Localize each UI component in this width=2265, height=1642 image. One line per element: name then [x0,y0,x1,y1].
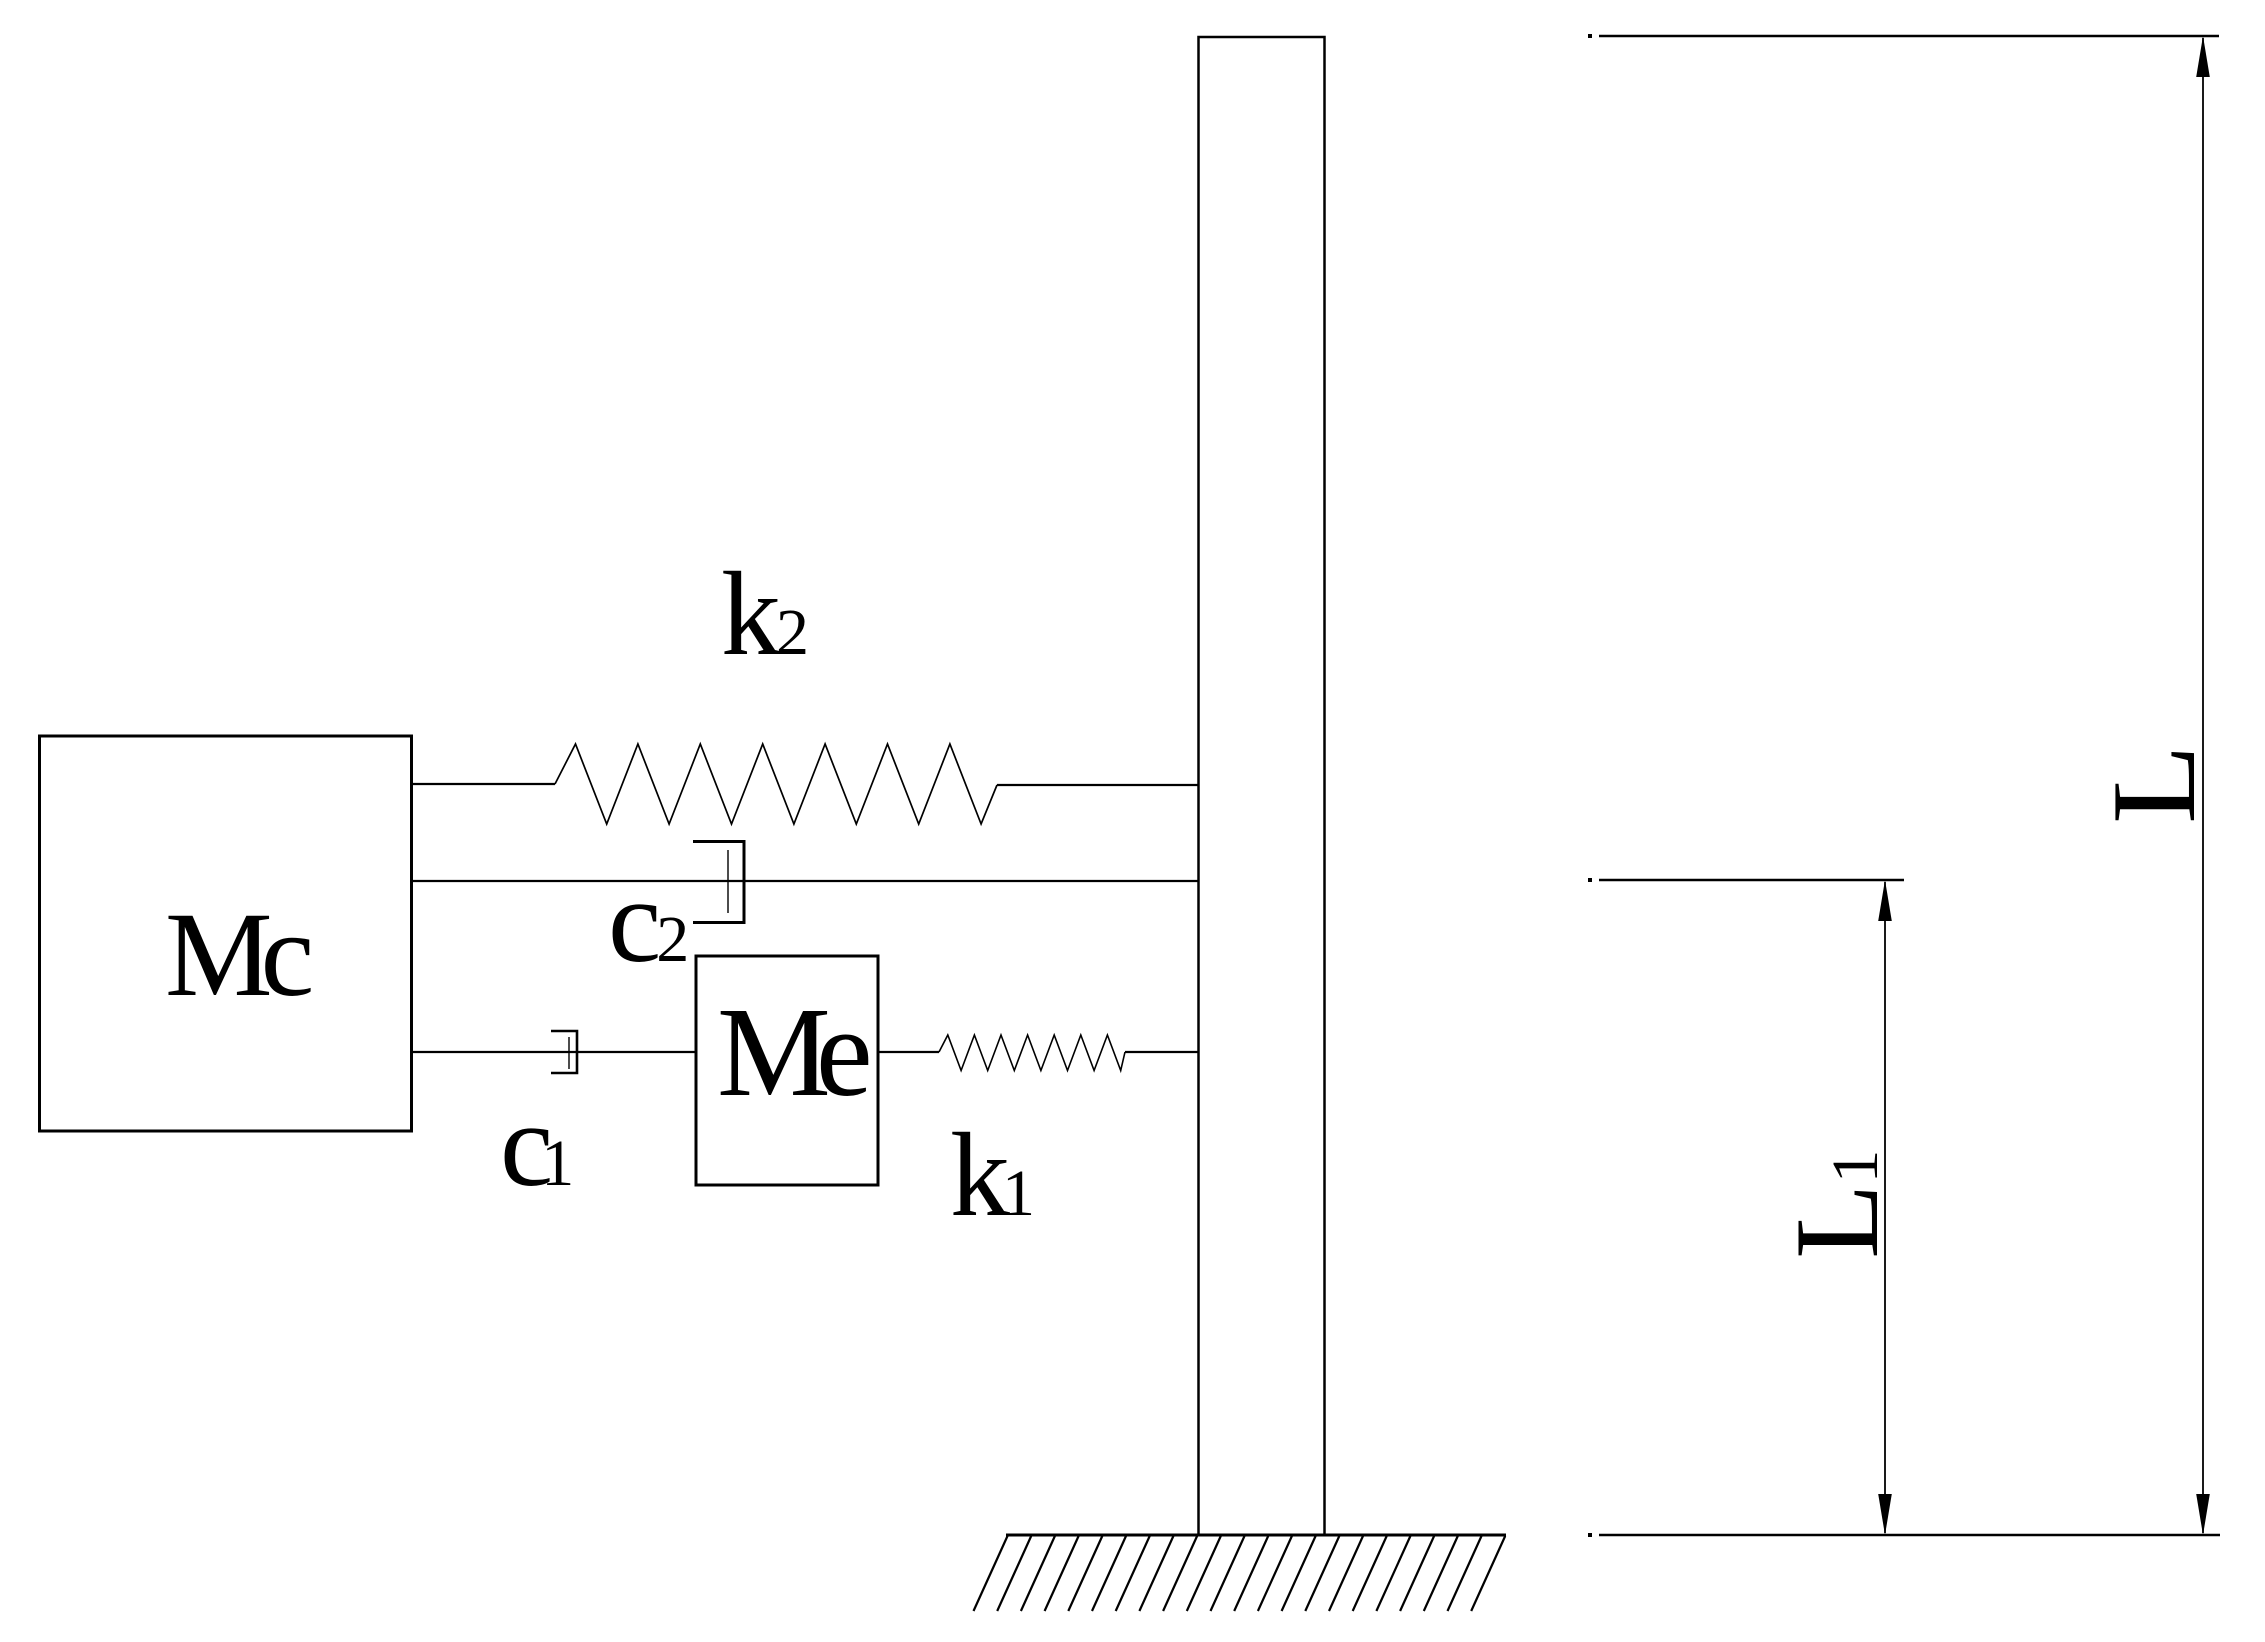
dimension bottom extension line [1599,1534,2220,1537]
wire from Mc to spring k2 [411,783,555,785]
label Me [717,981,869,1123]
dot at top extension line start [1588,34,1592,38]
wire from spring k2 to column [997,784,1198,786]
damper c2 piston [727,850,729,913]
wire from Mc through damper c2 to column [411,880,1198,882]
label L (rotated) [2088,744,2221,824]
svg-text:Mc: Mc [165,888,311,1022]
mass Mc box [40,736,412,1131]
ground line [1006,1534,1506,1537]
svg-text:L: L [2088,744,2221,824]
label k1 [950,1108,1032,1241]
wire from spring k1 to column [1125,1051,1198,1053]
label c2 [608,854,686,987]
mass Me box [696,956,878,1185]
dimension line L [2196,36,2210,1535]
spring k2 [555,744,997,824]
spring k1 [939,1035,1125,1071]
column (vertical beam) [1199,37,1325,1535]
dot at bottom extension line start [1588,1533,1592,1537]
label c1 [500,1078,571,1211]
dot at L1 extension line start [1588,878,1592,882]
dimension L top extension line [1599,35,2219,38]
label L1 (rotated) [1771,1150,1904,1259]
ground hatching [974,1536,1506,1611]
damper c2 cylinder [693,842,744,923]
dimension L1 extension line [1599,879,1904,882]
damper c1 cylinder [551,1031,577,1073]
wire from Mc through damper c1 to Me [411,1051,696,1053]
label Mc [165,888,311,1022]
svg-text:Me: Me [717,981,869,1123]
label k2 [721,547,806,680]
damper c1 piston [568,1037,570,1069]
wire from Me to spring k1 [878,1051,939,1053]
dimension line L1 [1878,880,1892,1535]
